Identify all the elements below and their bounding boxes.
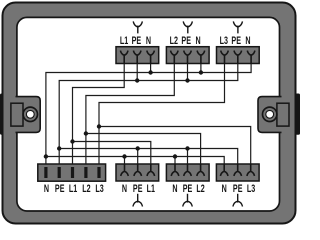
wire net L3 bottom branch	[99, 127, 251, 165]
svg-text:N: N	[172, 183, 177, 195]
svg-text:L3: L3	[247, 183, 255, 195]
terminal block bottom2	[166, 164, 209, 181]
svg-text:L1: L1	[120, 35, 128, 47]
pin contact input L2	[84, 167, 87, 178]
pin contact input L3	[97, 167, 100, 178]
junction input L1 branch	[70, 139, 74, 143]
wire net L1 top	[73, 64, 125, 165]
left latch hole	[26, 110, 34, 118]
junction top2 PE	[185, 78, 189, 82]
right latch tab	[295, 94, 300, 135]
wire net N top: input N up, bus to top blocks	[46, 64, 251, 165]
svg-text:L1: L1	[147, 183, 155, 195]
fork contact top3 PE	[234, 51, 242, 64]
right latch pocket	[258, 97, 282, 133]
junction top1 PE	[135, 78, 139, 82]
junction bottom1 PE	[136, 146, 140, 150]
svg-text:L3: L3	[95, 183, 103, 195]
wire bottom1 PE riser	[137, 149, 139, 165]
symbol vertex blobs	[137, 26, 139, 28]
svg-text:PE: PE	[181, 35, 191, 47]
junction input PE branch	[57, 146, 61, 150]
terminal block top1	[116, 47, 159, 64]
junction bottom2 N	[173, 154, 177, 158]
fork contact top1 PE	[133, 51, 141, 64]
junction top1 N	[148, 70, 152, 74]
svg-text:N: N	[44, 183, 49, 195]
pin contact input L1	[71, 167, 74, 178]
terminal block top2	[166, 47, 209, 64]
svg-text:L1: L1	[69, 183, 77, 195]
fork contact top2 N	[197, 51, 205, 64]
wire top2 PE drop	[187, 64, 189, 81]
outgoing circuit symbol top1	[133, 21, 142, 33]
right latch hole	[266, 110, 274, 118]
wire bottom2 N riser	[174, 157, 176, 165]
fork contact bottom1 L1	[147, 164, 155, 176]
pin contact input N	[44, 167, 47, 178]
svg-text:PE: PE	[233, 183, 243, 195]
junction bottom1 N	[122, 154, 126, 158]
terminal block bottom1	[116, 164, 159, 181]
svg-text:N: N	[122, 183, 127, 195]
fork contact bottom3 N	[220, 164, 228, 176]
junction top2 N	[199, 70, 203, 74]
pin contact input PE	[58, 167, 61, 178]
svg-text:PE: PE	[231, 35, 241, 47]
fork contact bottom3 L3	[247, 164, 255, 176]
outgoing circuit symbol bottom1	[133, 194, 143, 207]
terminal block input 5-pole	[38, 164, 106, 181]
wire net N bottom branch	[46, 157, 224, 165]
left latch pocket	[16, 97, 41, 133]
svg-text:L2: L2	[82, 183, 90, 195]
fork contact top1 N	[147, 51, 155, 64]
fork contact bottom2 PE	[184, 164, 192, 176]
wire top1 N drop	[150, 64, 152, 73]
fork contact top1 L1	[120, 51, 128, 64]
svg-text:N: N	[146, 35, 151, 47]
fork contact top2 PE	[184, 51, 192, 64]
wire bottom2 PE riser	[187, 149, 189, 165]
fork contact top3 N	[247, 51, 255, 64]
wire bottom1 N riser	[124, 157, 126, 165]
wire top2 N drop	[200, 64, 202, 73]
left latch bracket	[11, 103, 23, 126]
fork contact bottom2 L2	[197, 164, 205, 176]
svg-text:N: N	[222, 183, 227, 195]
junction input L2 branch	[84, 131, 88, 135]
wire net PE bottom branch	[59, 149, 238, 165]
wire net L2 bottom branch	[86, 134, 201, 165]
terminal block bottom3	[216, 164, 259, 181]
svg-text:L2: L2	[196, 183, 204, 195]
left latch tab	[0, 94, 5, 135]
enclosure cavity	[17, 17, 280, 211]
wire net PE top	[59, 64, 238, 165]
junction input L3 branch	[97, 124, 101, 128]
wire net L2 top	[86, 64, 174, 165]
svg-text:L2: L2	[170, 35, 178, 47]
right latch bracket	[277, 103, 289, 126]
terminal block top3	[217, 47, 260, 64]
svg-text:N: N	[196, 35, 201, 47]
fork contact bottom1 N	[121, 164, 129, 176]
outgoing circuit symbol top2	[183, 21, 192, 33]
svg-text:PE: PE	[132, 35, 142, 47]
svg-text:N: N	[245, 35, 250, 47]
wire net L3 top	[99, 64, 225, 165]
outgoing circuit symbol top3	[233, 21, 242, 33]
wire top1 PE drop	[136, 64, 138, 81]
wire net L1 bottom branch	[73, 142, 151, 165]
junction bottom2 PE	[185, 146, 189, 150]
outgoing circuit symbol bottom2	[183, 194, 193, 207]
junction input N branch	[44, 154, 48, 158]
svg-text:PE: PE	[183, 183, 193, 195]
svg-text:PE: PE	[133, 183, 143, 195]
outgoing circuit symbol bottom3	[233, 194, 243, 207]
svg-text:L3: L3	[220, 35, 228, 47]
fork contact bottom1 PE	[134, 164, 142, 176]
right latch ring	[263, 107, 277, 121]
fork contact bottom3 PE	[234, 164, 242, 176]
left latch ring	[23, 107, 37, 121]
svg-text:PE: PE	[55, 183, 65, 195]
fork contact top3 L3	[221, 51, 229, 64]
fork contact top2 L2	[171, 51, 179, 64]
fork contact bottom2 N	[171, 164, 179, 176]
